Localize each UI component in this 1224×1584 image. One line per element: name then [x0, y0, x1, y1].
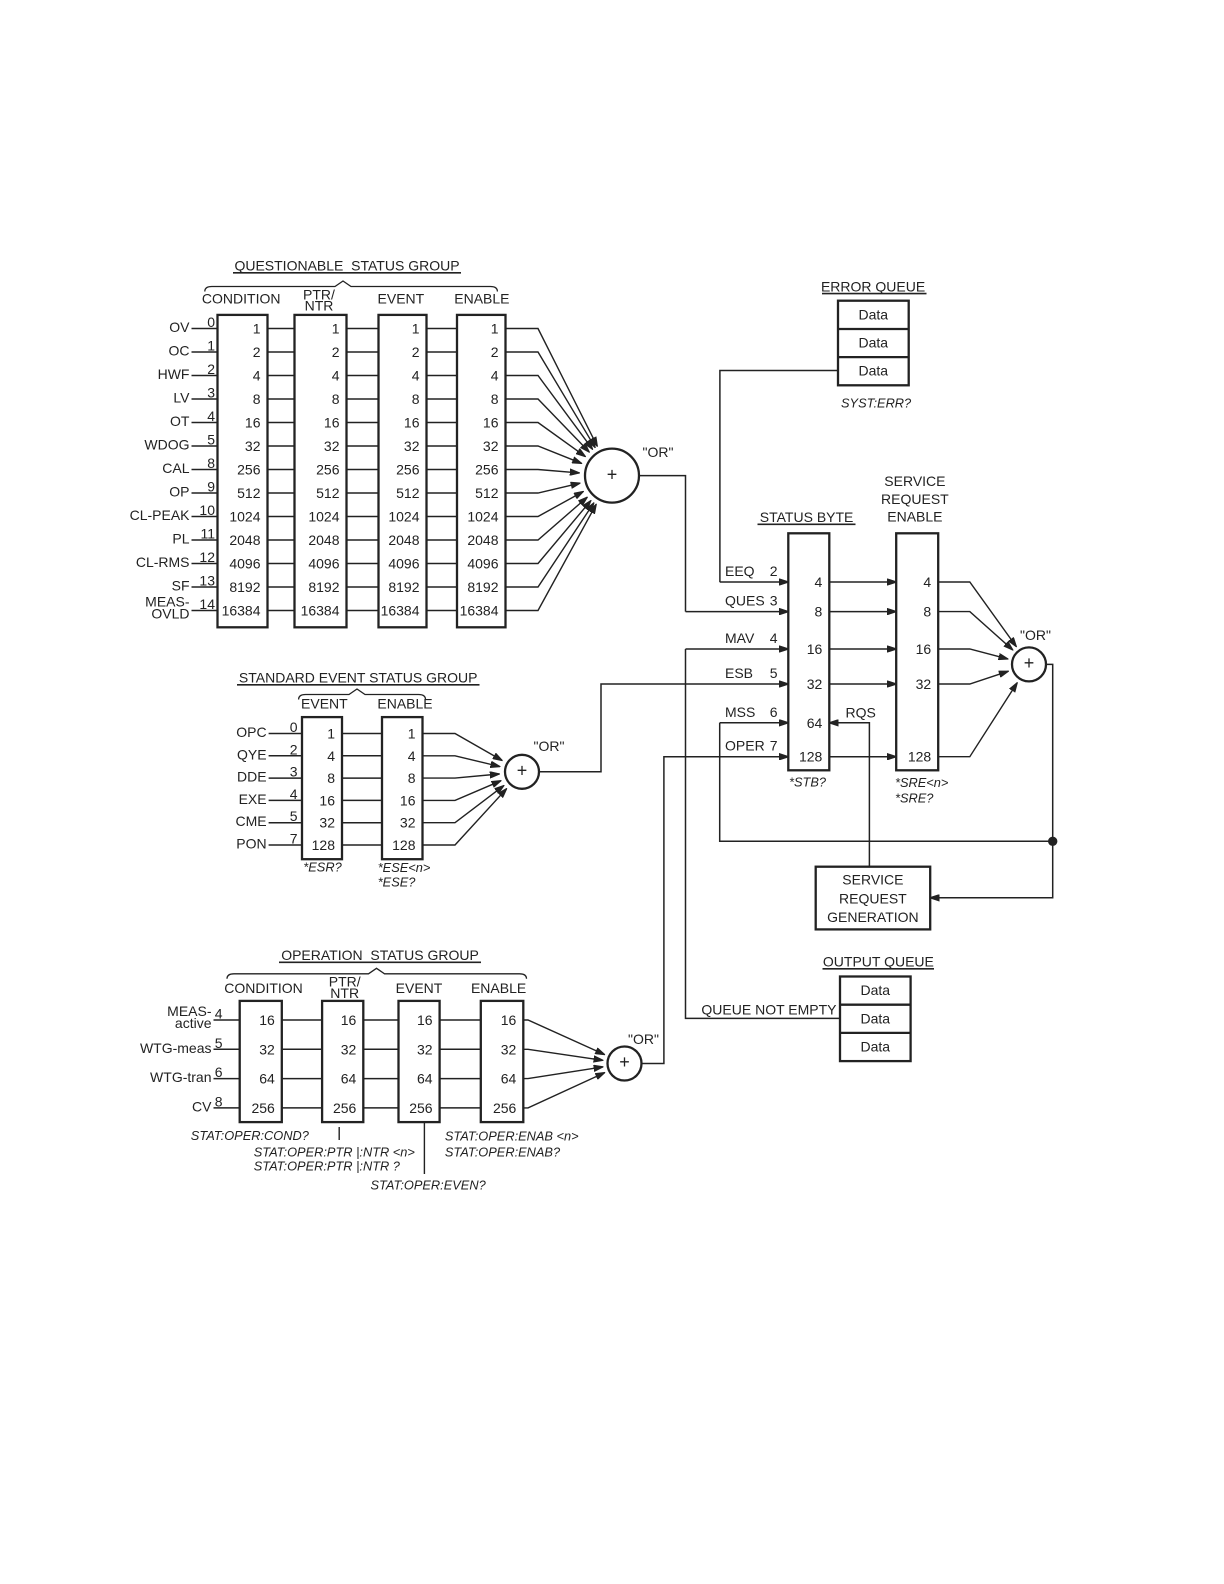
svg-text:GENERATION: GENERATION — [827, 909, 919, 925]
svg-text:5: 5 — [207, 432, 215, 448]
questionable OR fan arrow from row y=493 — [506, 483, 580, 493]
header SERVICE REQUEST ENABLE — [881, 473, 949, 524]
svg-text:32: 32 — [324, 438, 340, 454]
svg-text:16: 16 — [404, 415, 420, 431]
svg-text:SERVICE: SERVICE — [884, 473, 945, 489]
values in standard event column 2 — [392, 726, 416, 854]
svg-text:STANDARD EVENT STATUS GROUP: STANDARD EVENT STATUS GROUP — [239, 670, 478, 686]
svg-text:NTR: NTR — [330, 985, 359, 1001]
operation OR fan arrow from row y=1079 — [523, 1067, 603, 1079]
operation OR fan arrow from row y=1020 — [523, 1020, 604, 1055]
svg-text:"OR": "OR" — [1020, 627, 1051, 643]
svg-text:EVENT: EVENT — [301, 696, 348, 712]
svg-text:128: 128 — [799, 749, 823, 765]
svg-text:64: 64 — [259, 1071, 275, 1087]
svg-text:2048: 2048 — [308, 532, 339, 548]
svg-text:4: 4 — [253, 368, 261, 384]
svg-text:1024: 1024 — [308, 509, 339, 525]
svg-text:WTG-tran: WTG-tran — [150, 1069, 211, 1085]
svg-text:2048: 2048 — [388, 532, 419, 548]
wires STATUS BYTE to SERVICE REQUEST ENABLE — [829, 582, 896, 757]
svg-text:16: 16 — [501, 1012, 517, 1028]
svg-text:*ESR?: *ESR? — [303, 860, 342, 875]
node "OR" standard event summary — [505, 738, 564, 789]
values in operation column 2 — [333, 1012, 357, 1116]
svg-text:16384: 16384 — [460, 603, 499, 619]
svg-text:STAT:OPER:PTR |:NTR <n>: STAT:OPER:PTR |:NTR <n> — [254, 1145, 416, 1160]
questionable OR fan arrow from row y=540 — [506, 497, 588, 540]
register box questionable column 1 — [218, 315, 268, 627]
values in SERVICE REQUEST ENABLE — [908, 574, 932, 765]
questionable OR fan arrow from row y=328 — [506, 329, 598, 447]
values in standard event column 1 — [312, 726, 336, 854]
node questionable input CL-PEAK bit 10 — [130, 502, 218, 523]
svg-text:8: 8 — [253, 391, 261, 407]
header PTR/NTR (operation) — [329, 974, 361, 1002]
operation OR fan arrow from row y=1108 — [523, 1073, 604, 1108]
error queue Data labels — [859, 306, 889, 378]
brace standard event group — [299, 689, 426, 700]
svg-text:32: 32 — [417, 1041, 433, 1057]
svg-text:9: 9 — [207, 479, 215, 495]
node "OR" service request summary — [1012, 627, 1051, 681]
standard event OR fan arrow from row y=823 — [423, 786, 504, 823]
svg-text:4: 4 — [923, 574, 931, 590]
svg-text:SERVICE: SERVICE — [842, 871, 903, 887]
standard event OR fan arrow from row y=845 — [423, 789, 507, 845]
error queue boxes — [838, 301, 909, 386]
values in questionable column 3 — [381, 321, 420, 619]
title OPERATION STATUS GROUP — [279, 947, 481, 963]
svg-text:1024: 1024 — [229, 509, 260, 525]
svg-text:8: 8 — [408, 770, 416, 786]
svg-text:EVENT: EVENT — [396, 980, 443, 996]
svg-text:STATUS BYTE: STATUS BYTE — [760, 509, 854, 525]
wire QUES arrow — [686, 611, 789, 613]
svg-text:8: 8 — [215, 1093, 223, 1109]
svg-text:4: 4 — [815, 574, 823, 590]
register box STATUS BYTE — [788, 533, 829, 770]
node status byte input OPER bit 7 — [725, 738, 778, 754]
wires questionable between column 3 and 4 — [427, 329, 458, 611]
svg-text:CME: CME — [235, 813, 266, 829]
svg-text:+: + — [1024, 653, 1035, 673]
service request OR fan arrow from row y=582 — [938, 582, 1016, 647]
svg-text:4: 4 — [412, 368, 420, 384]
node standard event input EXE bit 4 — [239, 786, 302, 807]
svg-text:QUEUE NOT EMPTY: QUEUE NOT EMPTY — [701, 1002, 837, 1018]
svg-text:8: 8 — [332, 391, 340, 407]
svg-text:*SRE<n>: *SRE<n> — [895, 775, 949, 790]
node operation input CV bit 8 — [192, 1093, 240, 1114]
svg-text:256: 256 — [493, 1100, 517, 1116]
svg-text:32: 32 — [259, 1041, 275, 1057]
wire operation OR output to OPER — [642, 757, 789, 1064]
svg-text:HWF: HWF — [158, 366, 190, 382]
svg-text:0: 0 — [207, 314, 215, 330]
svg-text:1: 1 — [207, 338, 215, 354]
questionable OR fan arrow from row y=470 — [506, 470, 580, 473]
svg-text:1: 1 — [327, 726, 335, 742]
register box standard event column 2 — [382, 717, 423, 859]
svg-text:4: 4 — [408, 748, 416, 764]
svg-text:4096: 4096 — [388, 556, 419, 572]
svg-text:16: 16 — [483, 415, 499, 431]
register box standard event column 1 — [302, 717, 342, 859]
svg-text:128: 128 — [392, 837, 416, 853]
node operation input WTG-meas bit 5 — [140, 1035, 240, 1056]
node questionable input CAL bit 8 — [162, 455, 217, 476]
node status byte input MAV bit 4 — [725, 630, 778, 646]
wire standard event OR output to ESB — [539, 684, 788, 772]
svg-text:5: 5 — [770, 665, 778, 681]
svg-text:CAL: CAL — [162, 460, 189, 476]
service request OR fan arrow from row y=757 — [938, 683, 1017, 757]
title STANDARD EVENT STATUS GROUP — [237, 670, 480, 686]
svg-text:64: 64 — [341, 1071, 357, 1087]
header PTR/NTR (questionable) — [303, 287, 335, 314]
text SERVICE REQUEST GENERATION — [827, 871, 919, 925]
svg-text:1: 1 — [408, 726, 416, 742]
node standard event input PON bit 7 — [236, 831, 302, 852]
wire EEQ arrow — [720, 581, 789, 583]
caption *SRE<n> / *SRE? — [895, 775, 949, 806]
svg-text:STAT:OPER:COND?: STAT:OPER:COND? — [191, 1128, 310, 1143]
svg-text:Data: Data — [859, 363, 889, 379]
svg-text:OPERATION STATUS GROUP: OPERATION STATUS GROUP — [281, 947, 479, 963]
svg-text:Data: Data — [859, 334, 889, 350]
wires standard event between column 1 and 2 — [342, 734, 382, 846]
svg-text:Data: Data — [861, 982, 891, 998]
svg-text:Data: Data — [861, 1039, 891, 1055]
svg-text:0: 0 — [290, 719, 298, 735]
node questionable input HWF bit 2 — [158, 361, 218, 382]
questionable OR fan arrow from row y=564 — [506, 501, 591, 564]
svg-text:256: 256 — [237, 462, 261, 478]
svg-text:OC: OC — [169, 343, 190, 359]
node questionable input PL bit 11 — [172, 526, 217, 547]
svg-text:CL-RMS: CL-RMS — [136, 554, 190, 570]
svg-text:*STB?: *STB? — [789, 775, 827, 790]
svg-text:6: 6 — [770, 704, 778, 720]
node "OR" questionable summary — [585, 444, 673, 503]
svg-text:5: 5 — [290, 808, 298, 824]
svg-text:*ESE?: *ESE? — [378, 874, 417, 889]
svg-text:EEQ: EEQ — [725, 563, 755, 579]
questionable OR fan arrow from row y=516 — [506, 492, 584, 517]
svg-text:CONDITION: CONDITION — [202, 291, 281, 307]
svg-text:256: 256 — [409, 1100, 433, 1116]
svg-text:2: 2 — [253, 344, 261, 360]
svg-text:16: 16 — [417, 1012, 433, 1028]
svg-text:4: 4 — [290, 786, 298, 802]
tick below operation PTR/NTR box — [338, 1127, 340, 1140]
questionable OR fan arrow from row y=422 — [506, 423, 586, 457]
svg-text:OT: OT — [170, 413, 190, 429]
title QUESTIONABLE STATUS GROUP — [233, 258, 461, 274]
svg-text:1: 1 — [253, 321, 261, 337]
svg-text:REQUEST: REQUEST — [881, 491, 949, 507]
wires operation between column 1 and 2 — [282, 1020, 322, 1108]
svg-text:4: 4 — [215, 1006, 223, 1022]
svg-text:ENABLE: ENABLE — [887, 509, 942, 525]
svg-text:2: 2 — [290, 741, 298, 757]
register box operation column 4 — [481, 1001, 524, 1122]
svg-text:1: 1 — [491, 321, 499, 337]
svg-text:32: 32 — [319, 815, 335, 831]
svg-text:4: 4 — [770, 630, 778, 646]
svg-text:32: 32 — [916, 676, 932, 692]
svg-text:RQS: RQS — [846, 705, 876, 721]
node questionable input SF bit 13 — [172, 573, 218, 594]
svg-text:32: 32 — [501, 1041, 517, 1057]
svg-text:4096: 4096 — [308, 556, 339, 572]
node operation input WTG-tran bit 6 — [150, 1064, 240, 1085]
register box operation column 3 — [399, 1001, 440, 1122]
standard event OR fan arrow from row y=734 — [423, 734, 503, 761]
node standard event input CME bit 5 — [235, 808, 302, 829]
svg-text:14: 14 — [199, 596, 215, 612]
svg-text:QUESTIONABLE STATUS GROUP: QUESTIONABLE STATUS GROUP — [234, 258, 459, 274]
svg-text:64: 64 — [807, 715, 823, 731]
svg-text:5: 5 — [215, 1035, 223, 1051]
svg-text:8192: 8192 — [229, 579, 260, 595]
svg-text:4096: 4096 — [467, 556, 498, 572]
standard event OR fan arrow from row y=800 — [423, 781, 501, 801]
svg-text:*ESE<n>: *ESE<n> — [378, 860, 431, 875]
svg-text:EXE: EXE — [239, 791, 267, 807]
svg-text:NTR: NTR — [305, 298, 334, 314]
svg-text:256: 256 — [396, 462, 420, 478]
svg-text:MSS: MSS — [725, 704, 755, 720]
node operation input MEAS-active bit 4 — [167, 1003, 240, 1031]
wire queue not empty to MAV — [686, 649, 841, 1018]
svg-text:4: 4 — [327, 748, 335, 764]
svg-text:16: 16 — [341, 1012, 357, 1028]
svg-text:16: 16 — [259, 1012, 275, 1028]
svg-text:512: 512 — [396, 485, 420, 501]
svg-text:STAT:OPER:ENAB <n>: STAT:OPER:ENAB <n> — [445, 1129, 579, 1144]
svg-text:8: 8 — [412, 391, 420, 407]
svg-text:STAT:OPER:PTR |:NTR ?: STAT:OPER:PTR |:NTR ? — [254, 1159, 401, 1174]
node status byte input ESB bit 5 — [725, 665, 778, 681]
svg-text:7: 7 — [290, 831, 298, 847]
wire MSS feedback — [720, 723, 1053, 842]
standard event OR fan arrow from row y=778 — [423, 774, 500, 778]
svg-text:16384: 16384 — [381, 603, 420, 619]
svg-text:OV: OV — [169, 319, 190, 335]
svg-text:8: 8 — [815, 604, 823, 620]
svg-text:256: 256 — [251, 1100, 275, 1116]
svg-text:ERROR QUEUE: ERROR QUEUE — [821, 278, 925, 294]
svg-text:EVENT: EVENT — [378, 291, 425, 307]
service request OR fan arrow from row y=684 — [938, 671, 1008, 684]
wire error queue to EEQ — [720, 371, 838, 583]
svg-text:3: 3 — [770, 593, 778, 609]
svg-text:STAT:OPER:EVEN?: STAT:OPER:EVEN? — [371, 1178, 487, 1193]
svg-text:12: 12 — [199, 549, 215, 565]
svg-text:16: 16 — [807, 641, 823, 657]
register box operation column 2 — [322, 1001, 363, 1122]
svg-text:PON: PON — [236, 836, 266, 852]
svg-text:CV: CV — [192, 1098, 212, 1114]
svg-text:8: 8 — [327, 770, 335, 786]
caption STAT:OPER:PTR |:NTR — [254, 1145, 416, 1174]
service request OR fan arrow from row y=612 — [938, 612, 1012, 650]
svg-text:OUTPUT QUEUE: OUTPUT QUEUE — [823, 954, 934, 970]
svg-text:128: 128 — [312, 837, 336, 853]
node questionable input OC bit 1 — [169, 338, 218, 359]
title STATUS BYTE — [758, 509, 856, 525]
questionable OR fan arrow from row y=376 — [506, 376, 593, 450]
svg-text:8192: 8192 — [467, 579, 498, 595]
svg-text:"OR": "OR" — [628, 1031, 659, 1047]
brace operation group — [227, 968, 527, 979]
node questionable input CL-RMS bit 12 — [136, 549, 218, 570]
junction dot — [1049, 837, 1057, 845]
wire MSS arrow — [720, 722, 789, 724]
questionable OR fan arrow from row y=610 — [506, 505, 597, 611]
wires questionable between column 2 and 3 — [347, 329, 379, 611]
wire OR output to service request generation — [930, 664, 1052, 897]
svg-text:ESB: ESB — [725, 665, 753, 681]
values in questionable column 1 — [222, 321, 261, 619]
node questionable input WDOG bit 5 — [144, 432, 217, 453]
svg-text:PL: PL — [172, 531, 189, 547]
svg-text:QUES: QUES — [725, 593, 765, 609]
node status byte input QUES bit 3 — [725, 593, 778, 609]
svg-text:1: 1 — [332, 321, 340, 337]
svg-text:active: active — [175, 1015, 212, 1031]
register box questionable column 2 — [295, 315, 347, 627]
svg-text:OPER: OPER — [725, 738, 765, 754]
svg-text:CONDITION: CONDITION — [224, 980, 303, 996]
svg-text:16384: 16384 — [222, 603, 261, 619]
svg-text:512: 512 — [316, 485, 340, 501]
service request OR fan arrow from row y=649 — [938, 649, 1008, 659]
svg-text:QYE: QYE — [237, 746, 267, 762]
node "OR" operation summary — [608, 1031, 659, 1081]
title OUTPUT QUEUE — [823, 954, 935, 970]
svg-text:16: 16 — [324, 415, 340, 431]
wire RQS from service request generation — [829, 723, 869, 867]
values in questionable column 4 — [460, 321, 499, 619]
svg-text:WDOG: WDOG — [144, 437, 189, 453]
questionable OR fan arrow from row y=352 — [506, 352, 596, 447]
svg-text:Data: Data — [859, 306, 889, 322]
questionable OR fan arrow from row y=399 — [506, 399, 590, 452]
svg-text:11: 11 — [200, 526, 215, 542]
svg-text:32: 32 — [245, 438, 261, 454]
wire questionable OR output to QUES — [639, 476, 686, 612]
svg-text:CL-PEAK: CL-PEAK — [130, 507, 191, 523]
node standard event input DDE bit 3 — [237, 764, 302, 785]
node standard event input QYE bit 2 — [237, 741, 302, 762]
svg-text:32: 32 — [400, 815, 416, 831]
svg-text:64: 64 — [417, 1071, 433, 1087]
svg-text:4: 4 — [207, 408, 215, 424]
svg-text:4: 4 — [491, 368, 499, 384]
svg-text:+: + — [517, 761, 528, 781]
svg-text:+: + — [607, 464, 618, 484]
svg-text:LV: LV — [173, 390, 190, 406]
svg-text:2048: 2048 — [467, 532, 498, 548]
svg-text:32: 32 — [404, 438, 420, 454]
svg-text:"OR": "OR" — [643, 444, 674, 460]
node status byte input MSS bit 6 — [725, 704, 778, 720]
tick below operation EVENT box — [423, 1122, 425, 1174]
svg-text:OPC: OPC — [236, 724, 266, 740]
svg-text:2: 2 — [332, 344, 340, 360]
output queue boxes — [840, 977, 911, 1062]
svg-text:16: 16 — [400, 792, 416, 808]
svg-text:3: 3 — [207, 385, 215, 401]
questionable OR fan arrow from row y=446 — [506, 446, 582, 463]
svg-text:Data: Data — [861, 1010, 891, 1026]
node questionable input MEAS-OVLD bit 14 — [145, 593, 217, 621]
svg-text:256: 256 — [316, 462, 340, 478]
register box questionable column 4 — [457, 315, 506, 627]
output queue Data labels — [861, 982, 891, 1054]
values in operation column 3 — [409, 1012, 433, 1116]
svg-text:512: 512 — [237, 485, 261, 501]
caption *ESE<n> / *ESE? — [378, 860, 431, 889]
values in questionable column 2 — [301, 321, 340, 619]
svg-text:8192: 8192 — [308, 579, 339, 595]
svg-text:SYST:ERR?: SYST:ERR? — [841, 396, 912, 411]
svg-text:WTG-meas: WTG-meas — [140, 1040, 212, 1056]
node questionable input LV bit 3 — [173, 385, 217, 406]
wire MAV arrow — [686, 648, 789, 650]
node questionable input OP bit 9 — [169, 479, 217, 500]
node questionable input OV bit 0 — [169, 314, 217, 335]
svg-text:OP: OP — [169, 484, 189, 500]
svg-text:2: 2 — [491, 344, 499, 360]
svg-text:2048: 2048 — [229, 532, 260, 548]
svg-text:6: 6 — [215, 1064, 223, 1080]
operation OR fan arrow from row y=1049 — [523, 1049, 602, 1060]
svg-text:13: 13 — [199, 573, 215, 589]
svg-text:128: 128 — [908, 749, 932, 765]
svg-text:4096: 4096 — [229, 556, 260, 572]
svg-text:16: 16 — [319, 792, 335, 808]
svg-text:256: 256 — [475, 462, 499, 478]
svg-text:8: 8 — [923, 604, 931, 620]
svg-text:1: 1 — [412, 321, 420, 337]
wires operation between column 3 and 4 — [440, 1020, 481, 1108]
svg-text:256: 256 — [333, 1100, 357, 1116]
questionable OR fan arrow from row y=587 — [506, 503, 594, 587]
standard event OR fan arrow from row y=756 — [423, 756, 500, 767]
svg-text:OVLD: OVLD — [151, 605, 189, 621]
svg-text:ENABLE: ENABLE — [454, 291, 509, 307]
svg-text:1024: 1024 — [467, 509, 498, 525]
svg-text:3: 3 — [290, 764, 298, 780]
values in operation column 1 — [251, 1012, 275, 1116]
values in operation column 4 — [493, 1012, 517, 1116]
svg-text:64: 64 — [501, 1071, 517, 1087]
node status byte input EEQ bit 2 — [725, 563, 778, 579]
svg-text:"OR": "OR" — [534, 738, 565, 754]
svg-text:2: 2 — [770, 563, 778, 579]
values in STATUS BYTE — [799, 574, 823, 765]
svg-text:*SRE?: *SRE? — [895, 791, 934, 806]
wires questionable between column 1 and 2 — [268, 329, 295, 611]
svg-text:REQUEST: REQUEST — [839, 890, 907, 906]
svg-text:8: 8 — [491, 391, 499, 407]
svg-text:10: 10 — [199, 502, 215, 518]
register box operation column 1 — [240, 1001, 282, 1122]
